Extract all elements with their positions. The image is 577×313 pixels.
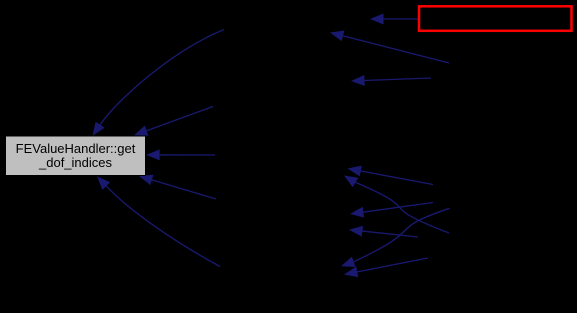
edge: mid node 4 -> FEValueHandler::get_dof_indices	[139, 175, 216, 199]
edge: right node -> mid-top node (diagonal)	[330, 31, 449, 64]
edge: mid-top node -> FEValueHandler::get_dof_indices (curve)	[93, 30, 225, 136]
edge: right node -> mid node 4 (L3)	[350, 203, 433, 218]
edge: mid node 3 -> FEValueHandler::get_dof_indices	[146, 149, 215, 160]
edge: right node -> mid-bottom node (L6)	[344, 258, 428, 277]
node: FEValueHandler::get_dof_indices (central, grey)	[6, 136, 146, 176]
svg-text:_dof_indices: _dof_indices	[38, 155, 112, 170]
edge: right node -> mid node 4 (L4)	[349, 226, 418, 237]
edge: caller(red) -> mid-top node	[370, 14, 418, 25]
svg-text:FEValueHandler::get: FEValueHandler::get	[16, 141, 136, 156]
node: highlighted caller (red border, dark fill)	[419, 6, 572, 31]
edge: right node -> mid node 3 (L2 curve)	[344, 176, 449, 234]
edge: right node -> mid node 3 (L1)	[348, 166, 434, 185]
edge: right node -> mid-bottom node (L5 curve)	[341, 208, 450, 267]
edge: right node -> mid node 2	[351, 75, 431, 86]
edge: mid-bottom node -> FEValueHandler::get_dof_indices (curve)	[97, 176, 220, 266]
edge: mid node 2 -> FEValueHandler::get_dof_indices	[134, 107, 213, 136]
